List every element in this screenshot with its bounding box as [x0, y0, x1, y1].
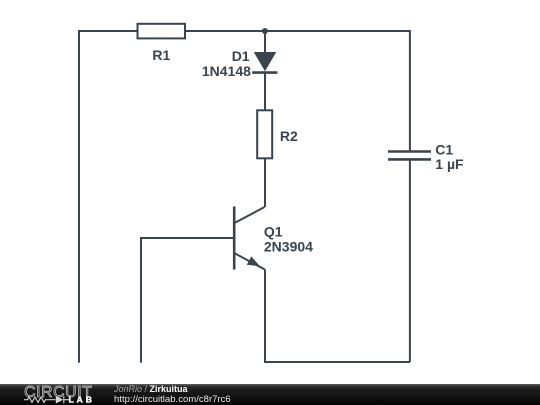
svg-text:LAB: LAB	[69, 394, 95, 404]
resistor R1	[138, 24, 186, 39]
svg-text:1N4148: 1N4148	[202, 63, 251, 79]
svg-text:C1: C1	[435, 142, 453, 158]
wire base-left vertical	[140, 237, 142, 363]
svg-text:R1: R1	[152, 47, 170, 63]
svg-text:Q1: Q1	[264, 223, 283, 239]
credit line	[114, 384, 188, 394]
capacitor C1	[388, 152, 431, 160]
svg-text:D1: D1	[232, 48, 250, 64]
resistor R2	[257, 110, 272, 158]
svg-text:R2: R2	[280, 128, 298, 144]
wire right vertical lower	[409, 160, 411, 363]
wire top-left segment	[79, 30, 138, 32]
footer bar	[0, 384, 540, 405]
wire top-right segment from R1 to corner and right vertical upper	[185, 31, 410, 152]
wire bottom horizontal	[264, 361, 410, 363]
wire diode cathode to R2	[264, 74, 266, 111]
wire diode anode	[264, 31, 266, 53]
transistor Q1	[234, 207, 265, 270]
svg-text:2N3904: 2N3904	[264, 238, 313, 254]
wire base horizontal	[141, 237, 234, 239]
wire emitter vertical	[264, 270, 266, 363]
svg-text:1 µF: 1 µF	[435, 156, 464, 172]
node junction dot	[262, 28, 268, 34]
url line	[114, 394, 231, 405]
diode D1	[252, 52, 277, 73]
CircuitLab logo	[0, 384, 110, 405]
wire left vertical	[78, 30, 80, 363]
wire R2 to collector	[264, 158, 266, 207]
